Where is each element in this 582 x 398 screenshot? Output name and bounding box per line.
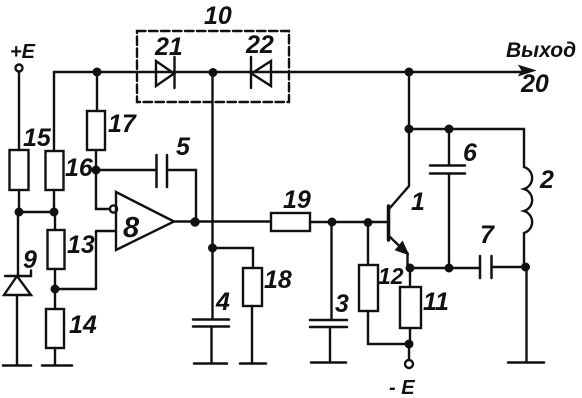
wire R12 to node K <box>368 311 409 344</box>
wire R17 to node D <box>95 150 97 170</box>
node L junction top rail right <box>406 69 413 76</box>
transistor Q1 base bar <box>387 206 391 240</box>
wire R13 to node E <box>54 269 56 289</box>
svg-text:Выход: Выход <box>506 39 576 62</box>
node I junction <box>329 219 336 226</box>
op-amp output wire <box>174 220 271 222</box>
wire node O to R11 <box>409 268 411 287</box>
svg-text:20: 20 <box>520 70 549 98</box>
node B junction <box>51 209 58 216</box>
node Q junction <box>522 264 529 271</box>
wire node A to node B <box>19 211 54 213</box>
node F junction in box <box>210 69 217 76</box>
wire node I to C3 <box>330 222 332 320</box>
svg-text:17: 17 <box>108 110 137 138</box>
wire node A to zener 9 <box>17 212 19 276</box>
node P junction C6 bottom <box>446 265 453 272</box>
wire node D to C5 <box>96 169 156 171</box>
wire node B to R13 <box>54 212 56 230</box>
wire emitter down <box>406 253 408 268</box>
svg-text:3: 3 <box>335 290 349 318</box>
capacitor C6 <box>430 166 465 174</box>
transistor Q1 emitter arrowhead <box>396 242 409 255</box>
wire +E to R15 <box>18 72 20 151</box>
wire C6 top lead <box>448 129 450 165</box>
resistor R16 <box>46 151 64 190</box>
wire top rail corner to R16 <box>53 72 55 151</box>
node N junction C6 top <box>446 126 453 133</box>
wire node C to R17 <box>96 72 98 111</box>
capacitor C5 <box>157 155 168 187</box>
wire C7 to node Q <box>492 266 528 268</box>
wire R19 to base <box>310 221 388 223</box>
wire C6 bottom lead <box>448 174 450 268</box>
wire node F down the middle <box>211 73 213 319</box>
wire R18 to ground <box>251 306 253 363</box>
wire collector row <box>409 128 524 130</box>
resistor R14 <box>46 309 64 348</box>
wire C4 to ground <box>210 327 212 363</box>
wire R16 to node B <box>53 190 55 212</box>
node D junction <box>93 167 100 174</box>
node G junction <box>209 245 216 252</box>
capacitor C3 <box>310 320 347 327</box>
wire R11 to node K <box>409 328 411 344</box>
svg-text:2: 2 <box>539 166 554 194</box>
output arrowhead <box>519 66 535 76</box>
wire node E to R14 <box>54 289 56 309</box>
resistor R13 <box>48 230 65 269</box>
wire C3 to ground <box>329 327 331 362</box>
node O junction emitter row <box>407 265 414 272</box>
svg-text:14: 14 <box>69 311 97 339</box>
wire noninverting input <box>55 231 116 289</box>
node J junction <box>365 219 372 226</box>
ground G4 <box>240 362 266 365</box>
wire node K to terminal <box>408 344 410 360</box>
transistor Q1 emitter <box>389 236 405 252</box>
transistor Q1 collector <box>389 71 409 209</box>
wire top supply rail <box>54 71 524 73</box>
ground G3 <box>194 362 227 365</box>
resistor R19 <box>271 213 310 231</box>
svg-text:9: 9 <box>23 246 37 274</box>
svg-text:+Е: +Е <box>10 41 36 63</box>
ground G2 <box>42 364 72 367</box>
svg-text:8: 8 <box>123 212 140 244</box>
wire node D to inverting input <box>96 170 110 209</box>
svg-text:18: 18 <box>264 266 292 294</box>
svg-text:10: 10 <box>204 2 232 30</box>
wire R14 to ground <box>54 348 56 365</box>
terminal +E <box>16 65 23 72</box>
node A junction <box>16 209 23 216</box>
wire emitter row to C7 <box>410 267 480 269</box>
svg-text:15: 15 <box>23 124 52 152</box>
diode D21 <box>156 57 175 88</box>
svg-text:21: 21 <box>154 33 183 61</box>
terminal -E <box>405 360 413 368</box>
diode D22 <box>251 57 271 88</box>
svg-text:19: 19 <box>283 186 311 214</box>
resistor R11 <box>400 287 421 328</box>
svg-text:22: 22 <box>245 31 274 59</box>
wire node Q to ground <box>525 267 527 362</box>
capacitor C7 <box>480 256 492 278</box>
resistor R17 <box>87 111 105 150</box>
svg-text:- Е: - Е <box>389 377 415 398</box>
svg-text:12: 12 <box>378 263 404 289</box>
svg-text:6: 6 <box>463 139 478 167</box>
wire C5 to op-amp output node <box>167 170 196 220</box>
node E junction <box>52 286 59 293</box>
resistor R18 <box>243 268 262 306</box>
resistor R12 <box>359 265 378 311</box>
capacitor C4 <box>193 320 229 327</box>
ground G1 <box>3 364 31 367</box>
svg-text:4: 4 <box>215 288 230 316</box>
wire zener 9 to ground <box>16 295 18 365</box>
svg-text:7: 7 <box>480 221 495 249</box>
dashed box 10 <box>137 31 289 102</box>
node M junction collector row <box>406 126 413 133</box>
ground G5 <box>311 361 346 364</box>
node K junction <box>406 341 413 348</box>
wire node J to R12 <box>367 223 369 266</box>
ground G6 <box>508 361 544 364</box>
inductor L2 <box>524 129 532 267</box>
svg-text:5: 5 <box>176 133 191 161</box>
op-amp U8 <box>116 192 174 250</box>
zener diode 9 <box>4 271 31 296</box>
svg-text:16: 16 <box>65 154 94 182</box>
op-amp U8 inverting bubble <box>110 205 117 212</box>
wire node G to R18 <box>213 248 254 268</box>
resistor R15 <box>10 150 29 190</box>
svg-text:13: 13 <box>67 231 95 259</box>
svg-text:1: 1 <box>411 188 425 216</box>
wire R15 to node A <box>18 190 20 212</box>
svg-text:11: 11 <box>423 288 449 316</box>
node H junction at op-amp output <box>192 219 199 226</box>
node C junction top rail <box>94 69 101 76</box>
